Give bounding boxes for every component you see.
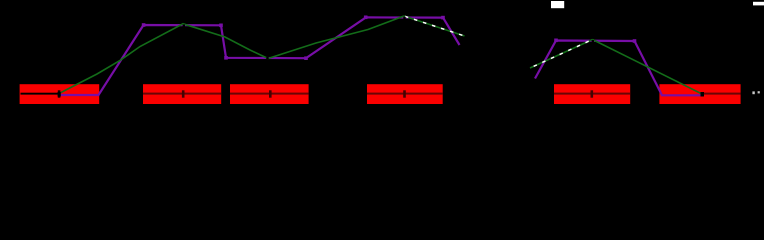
purple plot line left xyxy=(59,17,460,95)
green plot line right solid xyxy=(593,40,703,95)
black marker dot bar F1 center xyxy=(58,92,61,97)
gene bar F5 xyxy=(554,84,630,104)
gene bar F2 xyxy=(143,84,221,104)
gene bar F3 xyxy=(230,84,309,104)
green plot line left solid xyxy=(59,16,404,94)
green plot line right dashed rise xyxy=(530,40,593,69)
purple plot line right xyxy=(535,41,702,96)
purple vertex dots left xyxy=(142,16,445,61)
white label box top right corner xyxy=(753,2,764,6)
gene bar F4 xyxy=(367,84,443,104)
tiny gray marks far right xyxy=(752,91,759,94)
black marker dots at green vertices xyxy=(183,17,594,60)
purple vertex dots right xyxy=(554,39,636,43)
black marker dot bar F6 center xyxy=(701,92,705,97)
gene bar F6 xyxy=(659,84,740,104)
gene bar F1 xyxy=(20,84,100,104)
white label box top middle xyxy=(551,1,564,8)
green plot line left dashed tail xyxy=(404,16,465,36)
